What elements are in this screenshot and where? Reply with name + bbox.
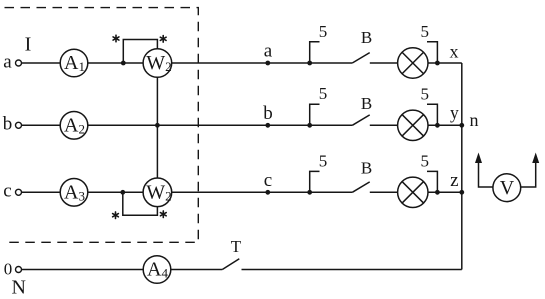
lamp (row c) [398, 177, 428, 207]
node: junction on phase c at voltage tap [120, 190, 125, 195]
wire: voltage-coil bracket of lower W2 [123, 192, 158, 215]
wire: switch to lamp (row b) [370, 124, 398, 126]
wire: terminal a to A1 [22, 62, 60, 64]
switch B (row b) blade [352, 115, 369, 125]
probe arrow (left) [475, 153, 482, 164]
terminal mark 5 (row b, left) [307, 123, 312, 128]
wire: A1 to W2 [88, 62, 144, 64]
wire: voltmeter left probe lead [479, 161, 493, 187]
wire: terminal 0 to A4 [22, 269, 143, 271]
ammeter A3 [60, 179, 88, 207]
svg-text:W2: W2 [146, 181, 171, 203]
svg-text:5: 5 [420, 151, 429, 170]
svg-text:5: 5 [319, 84, 328, 103]
node z (bus junction) [459, 190, 464, 195]
svg-text:z: z [450, 170, 458, 191]
wire: lamp to bus (row c) [428, 191, 462, 193]
polarity mark * (lower W2, right) [160, 211, 166, 218]
svg-text:b: b [3, 114, 13, 135]
wire: A4 to switch T [171, 269, 223, 271]
svg-text:5: 5 [420, 85, 429, 104]
lamp (row a) [398, 48, 428, 78]
switch B (row c) blade [352, 182, 369, 192]
wire: switch to lamp (row a) [370, 62, 398, 64]
wire: lamp to bus (row b) [428, 124, 462, 126]
lamp (row b) [398, 110, 428, 140]
svg-text:b: b [263, 103, 273, 124]
switch B (row a) blade [352, 53, 369, 63]
node: phase b / wattmeter voltage junction [155, 123, 160, 128]
wire: lamp to bus (row a) [428, 62, 462, 64]
svg-text:a: a [264, 41, 273, 62]
node c (dot) [265, 190, 270, 195]
wattmeter W2 (lower) [143, 178, 172, 207]
voltmeter V [493, 174, 521, 202]
terminal mark 5 (row b, right) [435, 123, 440, 128]
wire: terminal b to A2 [22, 124, 60, 126]
wire: W2 lower to node c [171, 191, 352, 193]
svg-text:B: B [361, 94, 372, 113]
wire: bottom return to T switch [242, 269, 462, 271]
node b (dot) [265, 123, 270, 128]
svg-text:A1: A1 [64, 52, 85, 74]
terminal a (phase a input) [16, 60, 22, 66]
dashed boundary box (instrument enclosure) [5, 8, 199, 243]
probe arrow (right) [532, 153, 539, 164]
terminal mark 5 (row c, right) [435, 190, 440, 195]
ammeter A4 [143, 256, 171, 284]
wire: voltage-coil bracket of upper W2 [123, 40, 157, 64]
ammeter A2 [60, 112, 88, 140]
node a (dot) [265, 61, 270, 66]
svg-text:T: T [231, 237, 242, 256]
svg-text:x: x [450, 41, 459, 61]
switch T blade [222, 259, 239, 270]
terminal b (phase b input) [16, 122, 22, 128]
svg-text:B: B [361, 158, 372, 177]
wire: A2 to switch (row b) [88, 124, 353, 126]
ammeter A1 [60, 49, 88, 77]
wire: voltage link between wattmeters [156, 77, 158, 178]
terminal mark 5 (row a, left) [307, 61, 312, 66]
terminal 0 (neutral input) [16, 267, 22, 273]
wire: switch to lamp (row c) [370, 191, 398, 193]
svg-text:c: c [264, 170, 272, 191]
polarity mark * (upper W2, left) [113, 35, 119, 42]
wire: neutral bus (vertical) [461, 63, 463, 270]
wire: W2 to node a [171, 62, 352, 64]
polarity mark * (lower W2, left) [113, 212, 119, 219]
svg-text:a: a [3, 51, 12, 72]
svg-text:A4: A4 [147, 259, 168, 281]
node: junction on phase a at voltage tap [121, 61, 126, 66]
svg-text:N: N [11, 277, 25, 299]
terminal c (phase c input) [16, 189, 22, 195]
svg-text:A3: A3 [64, 181, 85, 203]
svg-text:B: B [361, 28, 372, 47]
svg-text:W2: W2 [146, 52, 171, 74]
svg-text:c: c [3, 181, 11, 202]
node n (bus junction) [459, 123, 464, 128]
svg-text:I: I [25, 34, 32, 56]
svg-text:5: 5 [420, 22, 429, 41]
wattmeter W2 (upper) [143, 49, 172, 78]
svg-text:V: V [500, 177, 515, 199]
svg-text:5: 5 [319, 151, 328, 170]
wire: terminal c to A3 [22, 191, 60, 193]
terminal mark 5 (row a, right) [435, 61, 440, 66]
svg-text:n: n [470, 110, 479, 130]
svg-text:5: 5 [319, 22, 328, 41]
wire: A3 to W2 lower [88, 191, 144, 193]
wire: voltmeter right probe lead [521, 161, 536, 187]
terminal mark 5 (row c, left) [307, 190, 312, 195]
svg-text:y: y [450, 102, 459, 122]
polarity mark * (upper W2, right) [160, 36, 166, 43]
svg-text:A2: A2 [64, 114, 85, 136]
